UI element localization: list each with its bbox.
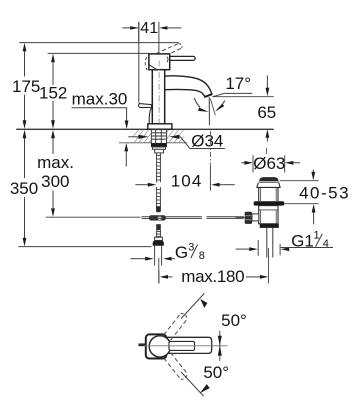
- top view body: [146, 334, 167, 358]
- spray arrow left: [194, 98, 208, 112]
- dimension max180: [159, 267, 269, 286]
- top view lever lowered dashed: [164, 353, 188, 380]
- water stream: [209, 97, 215, 125]
- label 50deg upper: [221, 311, 247, 330]
- pop-up lift rod: [156, 153, 161, 211]
- raised lever dashed: [156, 43, 182, 58]
- dimension line 175-350: [23, 43, 27, 247]
- dimension line 152-max300: [51, 54, 55, 217]
- label G1 1/4: [236, 230, 333, 256]
- supply tail G3/8: [153, 230, 164, 283]
- svg-text:max.180: max.180: [181, 267, 244, 286]
- deck hatching: [124, 130, 279, 143]
- drain nut: [260, 224, 279, 228]
- dimension 65: [257, 76, 276, 142]
- svg-text:max.30: max.30: [72, 90, 128, 109]
- angle line lower 50deg: [181, 372, 210, 396]
- top view cartridge circle: [149, 336, 170, 357]
- pull rod knob: [139, 104, 152, 124]
- svg-text:Ø63: Ø63: [253, 154, 285, 173]
- dimension dia63: [241, 154, 300, 173]
- label 17deg: [212, 74, 273, 97]
- drain plug cap: [259, 177, 280, 182]
- label dia34: [128, 131, 225, 150]
- lever swing arc dashed: [145, 57, 147, 70]
- top view lever raised dashed: [164, 314, 188, 341]
- svg-text:17°: 17°: [225, 74, 251, 93]
- svg-text:175: 175: [12, 77, 40, 96]
- dimension 41: [122, 20, 181, 60]
- svg-text:50°: 50°: [203, 363, 229, 382]
- svg-text:65: 65: [257, 103, 276, 122]
- top view lever outer: [166, 337, 212, 353]
- drain centerline: [266, 148, 268, 154]
- pull rod: [138, 22, 140, 103]
- svg-text:4: 4: [323, 238, 329, 250]
- horizontal rod: [142, 217, 244, 219]
- drain lower body: [259, 206, 278, 224]
- angle arc arrows: [218, 331, 222, 361]
- cartridge housing: [149, 54, 170, 70]
- extension line max300 bottom: [46, 216, 141, 218]
- spray arrow right: [215, 101, 225, 112]
- svg-text:G: G: [175, 243, 188, 262]
- dimension 40-53: [280, 170, 350, 225]
- faucet body: [152, 70, 164, 124]
- lever handle: [163, 56, 196, 60]
- faucet centerline: [158, 61, 160, 128]
- escutcheon: [148, 124, 172, 129]
- ball joint: [149, 206, 166, 230]
- svg-text:152: 152: [39, 84, 67, 103]
- deck surface: [16, 129, 274, 143]
- drain tailpipe: [267, 228, 273, 284]
- extension line 350 bottom: [18, 246, 151, 248]
- svg-text:350: 350: [10, 179, 38, 198]
- svg-text:300: 300: [41, 172, 69, 191]
- extension line top of lever (175): [19, 42, 179, 44]
- svg-text:8: 8: [199, 250, 205, 262]
- svg-text:104: 104: [171, 172, 203, 191]
- top view pull rod stub: [139, 343, 147, 346]
- label 152: [39, 84, 67, 103]
- extension line handle rest (152): [48, 52, 150, 54]
- mounting shank: [151, 130, 166, 144]
- label G3/8: [130, 242, 204, 262]
- dimension 104: [135, 131, 235, 191]
- mounting nut: [151, 143, 167, 153]
- label 175: [12, 77, 40, 96]
- svg-text:40-53: 40-53: [299, 183, 350, 202]
- drain upper flare: [257, 183, 280, 201]
- drain flange seal: [254, 201, 285, 205]
- svg-text:50°: 50°: [221, 311, 247, 330]
- svg-text:Ø34: Ø34: [191, 131, 223, 150]
- angle line upper 50deg: [181, 293, 207, 318]
- label 50deg lower: [203, 363, 229, 382]
- label 350: [10, 179, 38, 198]
- label max.300: [37, 153, 74, 191]
- label max.30 with leader: [72, 90, 129, 167]
- top view centerline: [144, 345, 228, 347]
- drain knob: [236, 212, 259, 224]
- svg-text:G1: G1: [291, 231, 314, 250]
- svg-text:max.: max.: [37, 153, 74, 172]
- top view lever inner: [169, 341, 195, 350]
- spout: [165, 76, 212, 97]
- svg-text:41: 41: [140, 20, 158, 37]
